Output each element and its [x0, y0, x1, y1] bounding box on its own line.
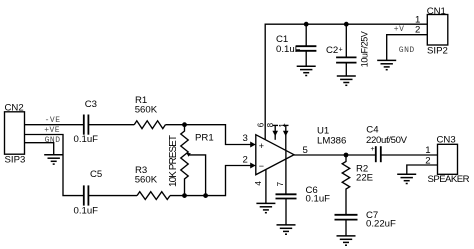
svg-text:GND: GND — [399, 46, 415, 55]
capacitor C5 — [74, 169, 103, 217]
svg-text:+: + — [371, 146, 375, 153]
svg-text:10uF/25V: 10uF/25V — [360, 31, 370, 67]
svg-text:CN2: CN2 — [5, 103, 24, 114]
svg-text:PR1: PR1 — [195, 133, 214, 144]
wire pin 4 to ground — [265, 169, 267, 203]
node junction C2/rail — [344, 22, 349, 27]
ground below CN2 — [44, 155, 63, 164]
svg-text:0.1uF: 0.1uF — [74, 206, 99, 217]
svg-text:C4: C4 — [366, 124, 379, 135]
wire output pin 5 to C4 — [294, 154, 376, 156]
svg-text:+: + — [339, 46, 343, 53]
node junction top of PR1 — [182, 122, 187, 127]
svg-text:GND: GND — [45, 136, 61, 145]
ground below C1 — [297, 66, 316, 75]
svg-text:7: 7 — [276, 181, 285, 186]
svg-text:560K: 560K — [135, 104, 158, 115]
ground below C7 — [337, 236, 356, 245]
svg-text:CN1: CN1 — [427, 6, 446, 17]
svg-text:0.1uF: 0.1uF — [306, 194, 331, 205]
svg-text:2: 2 — [243, 155, 248, 166]
wire R3 to corner and up to op-amp pin 2 — [170, 166, 251, 196]
svg-text:0.22uF: 0.22uF — [366, 219, 396, 230]
ground below CN3 pin 2 — [397, 174, 416, 183]
capacitor C6 — [276, 185, 331, 225]
wire C4 to CN3 pin 1 — [381, 154, 438, 156]
ground below CN1 pin 2 — [377, 60, 396, 69]
svg-text:LM386: LM386 — [317, 135, 346, 146]
svg-text:-VE: -VE — [45, 116, 61, 125]
svg-text:560K: 560K — [135, 175, 158, 186]
svg-text:8: 8 — [266, 122, 275, 127]
svg-text:22E: 22E — [356, 173, 373, 184]
svg-text:1: 1 — [278, 123, 287, 128]
wire C5 to R3 — [88, 195, 137, 197]
svg-text:SIP3: SIP3 — [5, 155, 26, 166]
svg-text:−: − — [259, 161, 264, 171]
capacitor C7 — [335, 210, 397, 236]
pin 8 stub (NC) — [272, 125, 278, 139]
connector CN1 SIP2 — [415, 6, 448, 57]
svg-text:C3: C3 — [85, 99, 97, 110]
wire CN2 GND to ground — [25, 143, 54, 155]
capacitor C3 — [74, 99, 99, 145]
wire CN2 +VE down to lower line — [25, 135, 84, 196]
resistor R2 22E — [342, 155, 373, 215]
svg-text:10K PRESET: 10K PRESET — [168, 135, 179, 187]
svg-text:C5: C5 — [90, 169, 102, 180]
svg-text:5: 5 — [303, 145, 308, 156]
svg-text:SIP2: SIP2 — [427, 46, 448, 57]
wire pin 7 down to C6 — [285, 150, 287, 194]
resistor R1 560K — [134, 95, 165, 129]
ground below pin 4 — [256, 203, 275, 212]
node junction output/R2 — [344, 153, 349, 158]
wire +V rail from pin6 riser to CN1 pin 1 — [265, 24, 427, 139]
wire CN1 pin 2 to ground — [387, 35, 428, 61]
connector CN3 SPEAKER — [425, 134, 469, 185]
resistor R3 560K — [135, 165, 170, 200]
wire CN3 pin 2 to ground — [407, 165, 438, 174]
capacitor C4 220uf/50V — [366, 124, 408, 162]
svg-text:+: + — [259, 141, 264, 151]
op-amp U1 LM386 — [256, 125, 347, 174]
node junction C1/rail — [304, 22, 309, 27]
arrowhead into pin 3 — [250, 142, 256, 148]
svg-text:+V: +V — [394, 25, 405, 34]
pin 1 stub (NC) — [283, 125, 289, 150]
svg-text:6: 6 — [257, 122, 266, 127]
svg-text:4: 4 — [254, 181, 263, 186]
wire CN2 -VE to C3 — [25, 124, 84, 126]
ground below C2 — [337, 76, 356, 85]
preset PR1 10K — [168, 125, 213, 196]
node junction PR1 bottom — [182, 193, 187, 198]
svg-text:220uf/50V: 220uf/50V — [366, 135, 408, 146]
node junction wiper drop — [203, 193, 208, 198]
svg-text:C2: C2 — [326, 45, 338, 56]
svg-text:SPEAKER: SPEAKER — [428, 174, 470, 185]
capacitor C2 10uF/25V — [326, 24, 370, 76]
wire C3 to R1 — [88, 124, 134, 126]
capacitor C1 — [276, 24, 316, 66]
svg-text:0.1uF: 0.1uF — [74, 134, 99, 145]
svg-text:1: 1 — [425, 145, 430, 156]
svg-text:0.1uF: 0.1uF — [276, 44, 301, 55]
connector CN2 SIP3 — [5, 103, 26, 166]
svg-text:3: 3 — [243, 133, 248, 144]
ground below C6 — [277, 225, 296, 234]
svg-text:CN3: CN3 — [437, 134, 456, 145]
wire R1 to junction and to op-amp pin 3 — [165, 125, 250, 145]
arrowhead into pin 2 — [250, 163, 256, 169]
